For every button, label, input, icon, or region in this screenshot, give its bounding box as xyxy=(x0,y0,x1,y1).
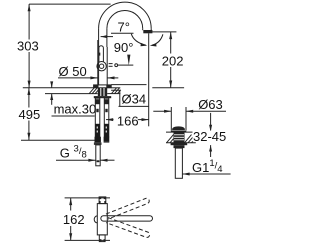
7deg reference line xyxy=(111,32,134,34)
svg-text:162: 162 xyxy=(63,212,85,227)
top view handle knob xyxy=(94,216,97,223)
dim 303 line xyxy=(28,4,30,39)
svg-text:32-45: 32-45 xyxy=(193,129,226,144)
D63 left arrow xyxy=(153,110,171,112)
max.30 up arrow xyxy=(51,94,53,105)
dim 162 line xyxy=(70,198,72,211)
G3/8 right arrow xyxy=(100,159,114,161)
top view bottom block xyxy=(99,235,105,242)
drain counter bottom line xyxy=(166,142,196,144)
leader to down arrow xyxy=(118,64,134,66)
G1 1/4 leader with arrow xyxy=(182,173,230,175)
dim 202 top extension xyxy=(150,31,176,33)
dim 166 right arrow xyxy=(138,119,149,121)
svg-text:7°: 7° xyxy=(118,20,130,35)
D63 right arrow leader xyxy=(186,110,226,112)
dim 495 line xyxy=(28,88,30,108)
D50 leader with arrow xyxy=(58,77,98,79)
spout arc outer xyxy=(99,2,152,28)
drain counter hatch left xyxy=(167,135,174,143)
counter line right xyxy=(152,87,184,89)
drain backnut xyxy=(171,143,188,145)
threaded stud left xyxy=(95,98,100,137)
svg-text:495: 495 xyxy=(19,107,41,122)
svg-text:166: 166 xyxy=(117,113,139,128)
small circle symbol xyxy=(115,64,118,67)
svg-text:202: 202 xyxy=(162,54,184,69)
svg-text:Ø34: Ø34 xyxy=(122,92,147,107)
hose tube below xyxy=(96,145,100,166)
top view: 162 bottom extension xyxy=(65,239,110,241)
label 32-45 xyxy=(193,131,230,142)
hose connector left skirt xyxy=(94,142,102,145)
top view dashed spout lower xyxy=(106,218,150,239)
D34 underline xyxy=(119,105,150,107)
spout arc inner xyxy=(107,11,143,29)
pivot inner circle xyxy=(99,64,103,68)
mounting shank section xyxy=(98,88,107,96)
counter hatch left xyxy=(89,88,99,94)
backnut xyxy=(94,96,111,98)
dim 202 line xyxy=(170,32,172,54)
hose connector right xyxy=(104,137,110,142)
dim 166 left arrow xyxy=(106,119,114,121)
drain tailpipe xyxy=(175,148,182,178)
swivel arc left xyxy=(131,34,146,45)
equals marks xyxy=(109,63,113,65)
dim 303 top extension xyxy=(29,3,111,5)
spout right leg xyxy=(150,28,152,30)
aerator outlet block xyxy=(143,30,152,33)
counter hatch right xyxy=(112,88,121,94)
dim 32-45 up arrow xyxy=(210,145,212,157)
label D34 leader xyxy=(111,90,120,106)
drain body in hole xyxy=(174,132,185,143)
svg-text:Ø63: Ø63 xyxy=(198,97,223,112)
top view spout bar xyxy=(101,216,153,221)
threaded stud right xyxy=(104,98,109,137)
small down arrow xyxy=(127,55,130,66)
counter top line right of base xyxy=(111,87,120,89)
svg-text:Ø 50: Ø 50 xyxy=(59,64,87,79)
faucet body column xyxy=(98,28,100,85)
hose connector left xyxy=(95,137,101,143)
top view: 162 top extension xyxy=(65,197,110,199)
counter bottom line right of base xyxy=(107,93,120,95)
max.30 down arrow xyxy=(51,83,53,88)
D63 extension lines xyxy=(170,107,172,131)
counter top line left xyxy=(23,87,94,89)
svg-text:90°: 90° xyxy=(114,40,134,55)
drain body below xyxy=(174,145,185,148)
drain counter top line xyxy=(166,131,208,133)
D50 right arrow xyxy=(107,77,118,79)
lever handle xyxy=(99,46,104,62)
dim 32-45 down arrow xyxy=(210,113,212,131)
spout outlet extension line xyxy=(148,33,150,126)
svg-text:max.30: max.30 xyxy=(54,102,97,117)
handle pivot circle xyxy=(97,61,106,70)
counter bottom line left xyxy=(45,93,98,95)
drain flange xyxy=(171,131,187,133)
max.30 underline xyxy=(52,115,95,117)
swivel arc right xyxy=(152,34,163,45)
top view dashed spout upper xyxy=(106,197,150,219)
drain knob xyxy=(172,126,185,130)
top view body xyxy=(97,204,107,235)
G3/8 leader with arrow xyxy=(56,159,96,161)
top view top block xyxy=(99,197,106,204)
dim 495 bottom extension xyxy=(21,139,95,141)
drain counter hatch right xyxy=(185,135,196,143)
swivel body arrow xyxy=(101,36,113,38)
base top extension line xyxy=(111,84,146,86)
svg-text:303: 303 xyxy=(17,39,39,54)
base escutcheon xyxy=(94,85,112,88)
lever dark detail xyxy=(99,53,101,56)
